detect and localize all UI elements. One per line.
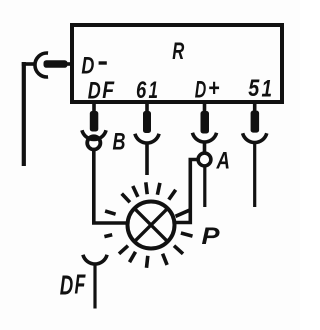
svg-text:F: F <box>75 269 86 300</box>
svg-text:+: + <box>208 75 220 102</box>
svg-text:D: D <box>88 78 101 105</box>
svg-text:F: F <box>102 77 115 104</box>
svg-text:D: D <box>195 77 207 104</box>
svg-text:B: B <box>113 129 126 156</box>
svg-text:D: D <box>81 53 94 80</box>
svg-text:5: 5 <box>248 75 260 102</box>
svg-text:D: D <box>60 270 74 301</box>
svg-text:P: P <box>202 223 221 250</box>
svg-text:1: 1 <box>262 76 273 103</box>
svg-text:6: 6 <box>136 77 147 104</box>
svg-text:A: A <box>216 148 230 175</box>
svg-text:R: R <box>172 38 184 65</box>
svg-text:1: 1 <box>149 77 159 104</box>
